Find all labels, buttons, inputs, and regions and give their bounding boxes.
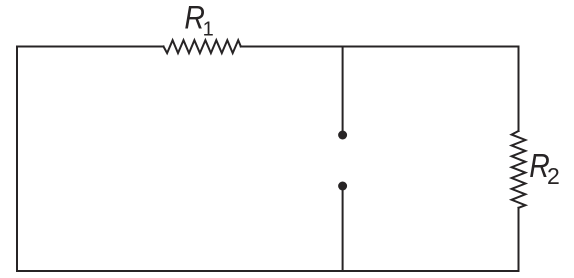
wire bottom (17, 270, 519, 272)
terminal node upper (338, 131, 347, 140)
wire middle lower segment (342, 188, 344, 271)
wire left side (16, 47, 18, 272)
wire top-left segment (17, 46, 164, 48)
resistor R1 (164, 40, 241, 53)
label R2 (529, 147, 559, 189)
wire middle upper segment (342, 47, 344, 134)
svg-text:2: 2 (547, 163, 560, 189)
terminal node lower (338, 182, 347, 191)
label R1 (184, 0, 213, 41)
resistor R2 (512, 131, 526, 208)
wire top-right segment (241, 46, 519, 48)
svg-text:1: 1 (203, 19, 214, 41)
wire right lower segment (518, 208, 520, 271)
wire right upper segment (518, 47, 520, 132)
